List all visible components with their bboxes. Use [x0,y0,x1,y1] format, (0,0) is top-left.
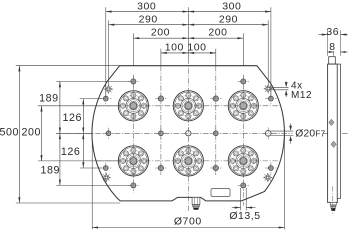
extension line 189 top [56,80,130,82]
dimension 200 left [133,37,188,39]
extension line 300 right [270,7,272,96]
side view weld mark lower [331,141,336,147]
vertical centerline 100-left holes [160,66,162,175]
extension line center top [187,7,189,59]
svg-text:126: 126 [63,112,82,124]
extension line 36/8 right [340,30,342,56]
extension line 500 top [16,65,120,67]
svg-text:300: 300 [137,0,156,12]
extension line 200v bottom [38,160,120,162]
dimension 500 [18,66,20,203]
bearing unit B2 [173,91,203,121]
horizontal centerline [56,132,293,134]
dimension Ø13,5 [240,188,242,210]
nameplate recess [211,189,230,197]
dimension 8 [327,51,334,53]
hole 100-left / 126-top row [158,96,163,101]
svg-text:500: 500 [0,127,19,139]
hole Ø20F7 right [265,130,271,136]
svg-text:200: 200 [208,27,227,39]
dimension 300 left [106,11,189,13]
plate outline (front view, Ø700 disc with flats) [92,66,284,201]
extension line 290 left [108,20,110,85]
svg-text:100: 100 [187,41,206,53]
svg-text:189: 189 [39,93,58,105]
extension line 8 left [333,51,335,56]
extension line 126 top [80,98,102,100]
extension line 200 right [242,33,244,65]
extension line 200 left [132,33,134,65]
vertical centerline 100-right holes [215,66,217,175]
dimension 290 left [109,24,189,26]
hole left on centerline (Ø20F7 mirror) [106,131,111,136]
svg-text:8: 8 [329,42,335,53]
side view main slab [328,64,338,202]
grease nipple (side view) [330,202,336,205]
side view flange [337,64,340,198]
hole 100-right / 126-top row [213,96,218,101]
dimension 100 left [161,52,188,54]
extension line 100 left [160,49,162,66]
hole 100-left / 126-bottom row [158,165,163,170]
bearing unit B3 [228,91,258,121]
svg-text:Ø700: Ø700 [174,216,202,228]
hole centerline +100 [213,131,218,136]
M12 thread symbol bottom-left [102,173,110,181]
svg-text:36: 36 [326,27,339,38]
bearing row 2 centerline [96,160,281,162]
dimension 200 right [188,37,243,39]
svg-text:200: 200 [151,27,170,39]
svg-text:M12: M12 [291,90,312,101]
extension line 100 right [215,49,217,66]
hole 189-bottom-left [131,183,136,188]
side view centerline [332,186,334,216]
vertical centerline column 1 [132,75,134,193]
side view weld mark upper [329,119,334,125]
hole centerline -100 [158,131,163,136]
extension line 300 left [105,7,107,96]
svg-text:100: 100 [165,41,184,53]
extension line Ø700 right [284,137,286,230]
bearing unit B4 [118,146,148,176]
horizontal centerline right of Ø20F7 text [323,132,348,134]
dimension 189 top [59,81,61,133]
corner hole top-right (300 line) [268,96,273,101]
vertical centerline column 2 (plate axis) [187,59,189,212]
svg-text:Ø13,5: Ø13,5 [229,210,260,222]
callout Ø20F7 [271,130,294,132]
extension line centerline left [56,132,92,134]
hole 189-top-left [131,79,136,84]
hole 100-right / 126-bottom row [213,165,218,170]
extension line 189 bottom [56,184,130,186]
bearing unit B5 [173,146,203,176]
M12 thread symbol top-right [264,85,272,93]
bearing unit B6 [228,146,258,176]
dimension 126 top [82,99,84,134]
extension line 200v top [38,105,120,107]
M12 thread symbol bottom-right [264,173,272,181]
hole 189-top-right [241,79,246,84]
extension line 290 right [267,20,269,85]
dimension 36 [319,34,328,36]
corner hole bottom-left [103,166,108,171]
svg-text:Ø20F7: Ø20F7 [295,129,325,140]
bearing row 1 centerline [96,105,281,107]
svg-text:290: 290 [139,13,158,25]
dimension 126 bottom [82,133,84,168]
extension line 36 left [327,30,329,56]
side view top tab [329,57,336,64]
svg-text:189: 189 [40,165,59,177]
dimension 189 bottom [59,133,61,185]
hole at plate center [186,131,191,136]
bearing unit B1 [118,91,148,121]
svg-text:300: 300 [222,0,241,12]
callout 4x M12 [271,87,288,89]
extension line 126 bottom [80,167,102,169]
extension line 500 bottom [16,202,120,204]
hole Ø13,5 bottom-right [241,183,246,188]
dimension 290 right [188,24,268,26]
extension line Ø700 left [91,137,93,230]
M12 thread symbol top-left [104,85,112,93]
dimension 100 right [188,52,215,54]
corner hole top-left (300 line) [103,96,108,101]
dimension 300 right [188,11,271,13]
svg-text:126: 126 [61,146,80,158]
svg-text:200: 200 [21,127,40,139]
dimension 200 vertical [41,106,43,161]
svg-text:290: 290 [219,13,238,25]
vertical centerline column 3 [242,75,244,206]
dimension Ø700 [92,227,284,229]
corner hole bottom-right [268,166,273,171]
grease nipple (front view) [192,197,200,204]
